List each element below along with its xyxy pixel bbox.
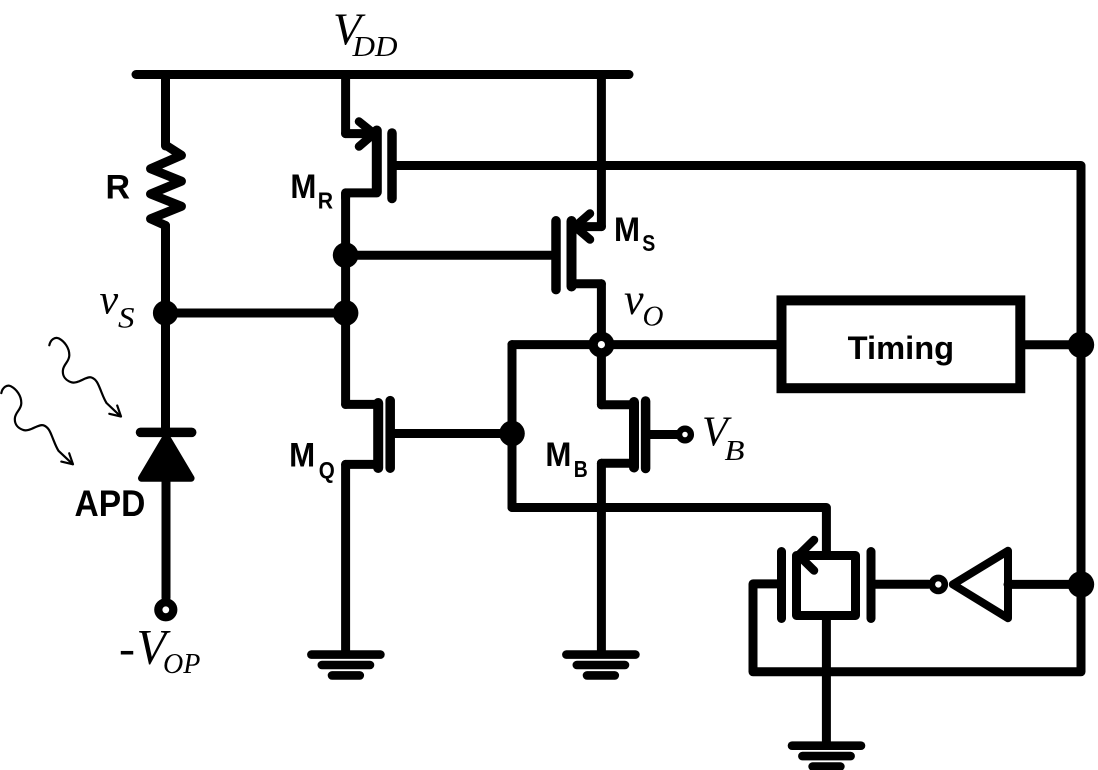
inverter bubble [932,578,945,591]
transistor MB channel bar [629,402,639,468]
transistor MQ channel bar [373,403,383,468]
diode APD cathode bar [141,428,192,438]
svg-text:M: M [290,168,316,206]
node vO open circle [593,336,610,353]
transistor MB drain wire from vO [597,345,606,405]
wire MQ gate [395,429,512,438]
transistor MR gate bar [387,133,397,199]
svg-text:O: O [643,301,664,333]
wire Timing output to right rail [1025,340,1081,349]
wire node vS down to APD cathode [161,313,170,430]
svg-text:M: M [289,436,315,474]
transistor MR channel bar [372,131,382,193]
svg-text:R: R [106,169,131,207]
transistor MR source bend [346,129,371,138]
wire VDD to resistor R top [161,75,170,147]
terminal -VOP open circle [158,602,173,617]
transistor MB drain bend [601,400,634,409]
wire inverter output to right rail [1008,580,1081,589]
transistor MS source bend [572,222,602,231]
wire node vO horizontal to Timing box [512,340,777,349]
wire MR drain down to MQ drain [341,193,350,405]
svg-text:S: S [642,230,655,256]
transistor MS channel bar [567,221,577,287]
node junction dot MQ gate tap [499,421,525,447]
varactor right plate bar [867,552,876,619]
node junction dot vS wire / MR-MQ column [333,300,359,326]
light wave arrow 1 [49,338,121,417]
wire resistor R bottom to node vS [161,226,170,314]
varactor left plate bar [777,552,786,619]
transistor MQ gate bar [385,401,395,469]
transistor MR source wire from VDD [341,75,350,134]
svg-text:M: M [614,211,640,249]
svg-text:Q: Q [319,457,335,483]
wire MS source to VDD [597,75,606,227]
wire MR gate to right feedback rail, down right side, along bottom, up to varactor left plate [397,166,1082,672]
node junction dot MR drain / MS gate [333,242,359,268]
node junction dot inverter output / right rail [1068,571,1094,597]
node vS junction dot [153,300,178,325]
svg-text:OP: OP [163,649,200,680]
inverter triangle [953,551,1008,618]
svg-text:M: M [545,436,571,474]
wire vO branch down [508,345,517,508]
transistor MB gate bar [641,401,651,469]
wire varactor right plate to inverter bubble [876,580,929,589]
wire VDD rail [136,70,629,79]
wire node vS horizontal to MR drain column [166,309,346,318]
wire MS gate [346,251,552,260]
wire MS drain down to node vO [597,284,606,345]
wire varactor bottom to ground [822,619,831,742]
svg-text:-: - [119,622,135,675]
transistor MQ drain bend [346,400,379,409]
varactor arrow [799,540,815,571]
light wave arrow 2 [1,386,73,465]
block Timing box [782,300,1021,388]
diode APD anode triangle [142,437,192,479]
ground under varactor [792,746,861,767]
ground under MB [566,655,635,676]
svg-text:B: B [574,456,588,482]
svg-text:APD: APD [75,483,146,524]
varactor box [797,556,856,616]
svg-text:Timing: Timing [848,330,955,366]
wire vO gate net horizontal to varactor top [512,508,826,552]
wire MB gate to VB terminal [650,430,678,439]
transistor MS source arrow [575,214,590,240]
transistor MR source arrow [359,122,374,147]
svg-text:v: v [100,278,119,324]
transistor MB source bend [601,459,634,468]
svg-text:B: B [725,435,745,467]
svg-text:R: R [318,188,334,214]
transistor MQ source bend [346,460,379,469]
svg-text:v: v [624,275,644,324]
transistor MR drain bend [346,193,377,198]
svg-text:DD: DD [351,31,397,63]
ground under MQ [311,655,380,676]
wire MQ source to ground [341,464,350,651]
terminal VB open circle [679,429,691,441]
svg-text:S: S [118,302,135,335]
transistor MS drain bend [572,279,602,288]
node junction dot Timing output / right rail [1068,332,1094,358]
wire MB source to ground [597,463,606,651]
wire APD anode to -VOP terminal [162,478,171,598]
resistor R [151,145,182,226]
transistor MS gate bar [551,221,561,290]
